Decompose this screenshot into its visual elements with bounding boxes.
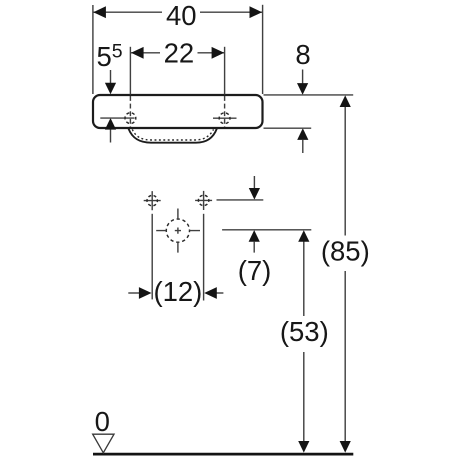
svg-text:(12): (12) [153, 276, 202, 307]
dim 40 arrow left [93, 6, 106, 18]
tap hole right centerline [224, 96, 226, 127]
drain level line [222, 229, 311, 231]
drain hole vertical arm [177, 209, 179, 253]
dim 12 arrow left [128, 287, 151, 299]
basin bowl hidden dashed curve [132, 129, 213, 140]
dim 5.5 lower leader [110, 130, 112, 143]
dim 8 arrow up [297, 128, 308, 140]
dim 5.5 arrow down [105, 83, 116, 95]
svg-text:(53): (53) [280, 316, 329, 347]
dim 40 extension line right [262, 5, 264, 94]
basin body outline [93, 95, 263, 128]
svg-text:(85): (85) [321, 236, 370, 267]
floor line [93, 453, 353, 456]
dim 7 arrow down [249, 188, 260, 200]
dim 22 arrow right [212, 47, 225, 59]
svg-text:(7): (7) [238, 255, 272, 286]
dim 12 extension line left [151, 214, 153, 300]
dim 5.5 arrow up [105, 118, 116, 130]
svg-text:40: 40 [166, 0, 197, 31]
dim 22 line [131, 52, 224, 54]
dim 8 arrow down [297, 83, 308, 95]
dim 85 line [344, 106, 346, 442]
fixing hole level line [217, 199, 264, 201]
drain hole center cross [175, 228, 181, 234]
tap hole left datum line [100, 117, 134, 119]
dim 53 arrow up [298, 230, 309, 242]
dim 85 arrow down [340, 441, 351, 453]
dim 40 arrow right [250, 6, 263, 18]
basin bowl solid curve [129, 129, 217, 143]
dim 22 extension line left [129, 47, 131, 95]
fixing hole left crosshair [144, 191, 161, 210]
dim 53 line [303, 241, 305, 442]
svg-text:8: 8 [295, 39, 310, 70]
dim 7 upper leader [253, 176, 255, 188]
tap hole left dashed circle [125, 113, 136, 124]
svg-text:22: 22 [164, 37, 195, 68]
dim 85 arrow up [340, 95, 351, 107]
dim 40 extension line left [92, 5, 94, 94]
basin top level line [264, 94, 354, 96]
tap hole right datum line [213, 117, 237, 119]
dim 12 arrow right [204, 287, 223, 299]
tap hole left centerline [129, 96, 131, 127]
datum triangle [93, 434, 114, 453]
drain hole horizontal arm [156, 230, 200, 232]
dim 7 arrow up [249, 230, 260, 242]
dim 8 upper leader [302, 70, 304, 84]
dim 12 extension line right [203, 214, 205, 301]
dim 22 extension line right [224, 47, 226, 95]
dim 7 lower leader [253, 241, 255, 252]
basin bottom level line [264, 127, 312, 129]
svg-text:0: 0 [95, 406, 110, 437]
fixing hole right crosshair [195, 191, 212, 210]
dim 40 line [93, 11, 262, 13]
dim 53 arrow down [298, 441, 309, 453]
dim 22 arrow left [131, 47, 144, 59]
tap hole right dashed circle [219, 113, 230, 124]
dim 8 lower leader [302, 140, 304, 154]
drain hole dashed circle [166, 219, 189, 242]
dim 5.5 upper leader [110, 70, 112, 84]
